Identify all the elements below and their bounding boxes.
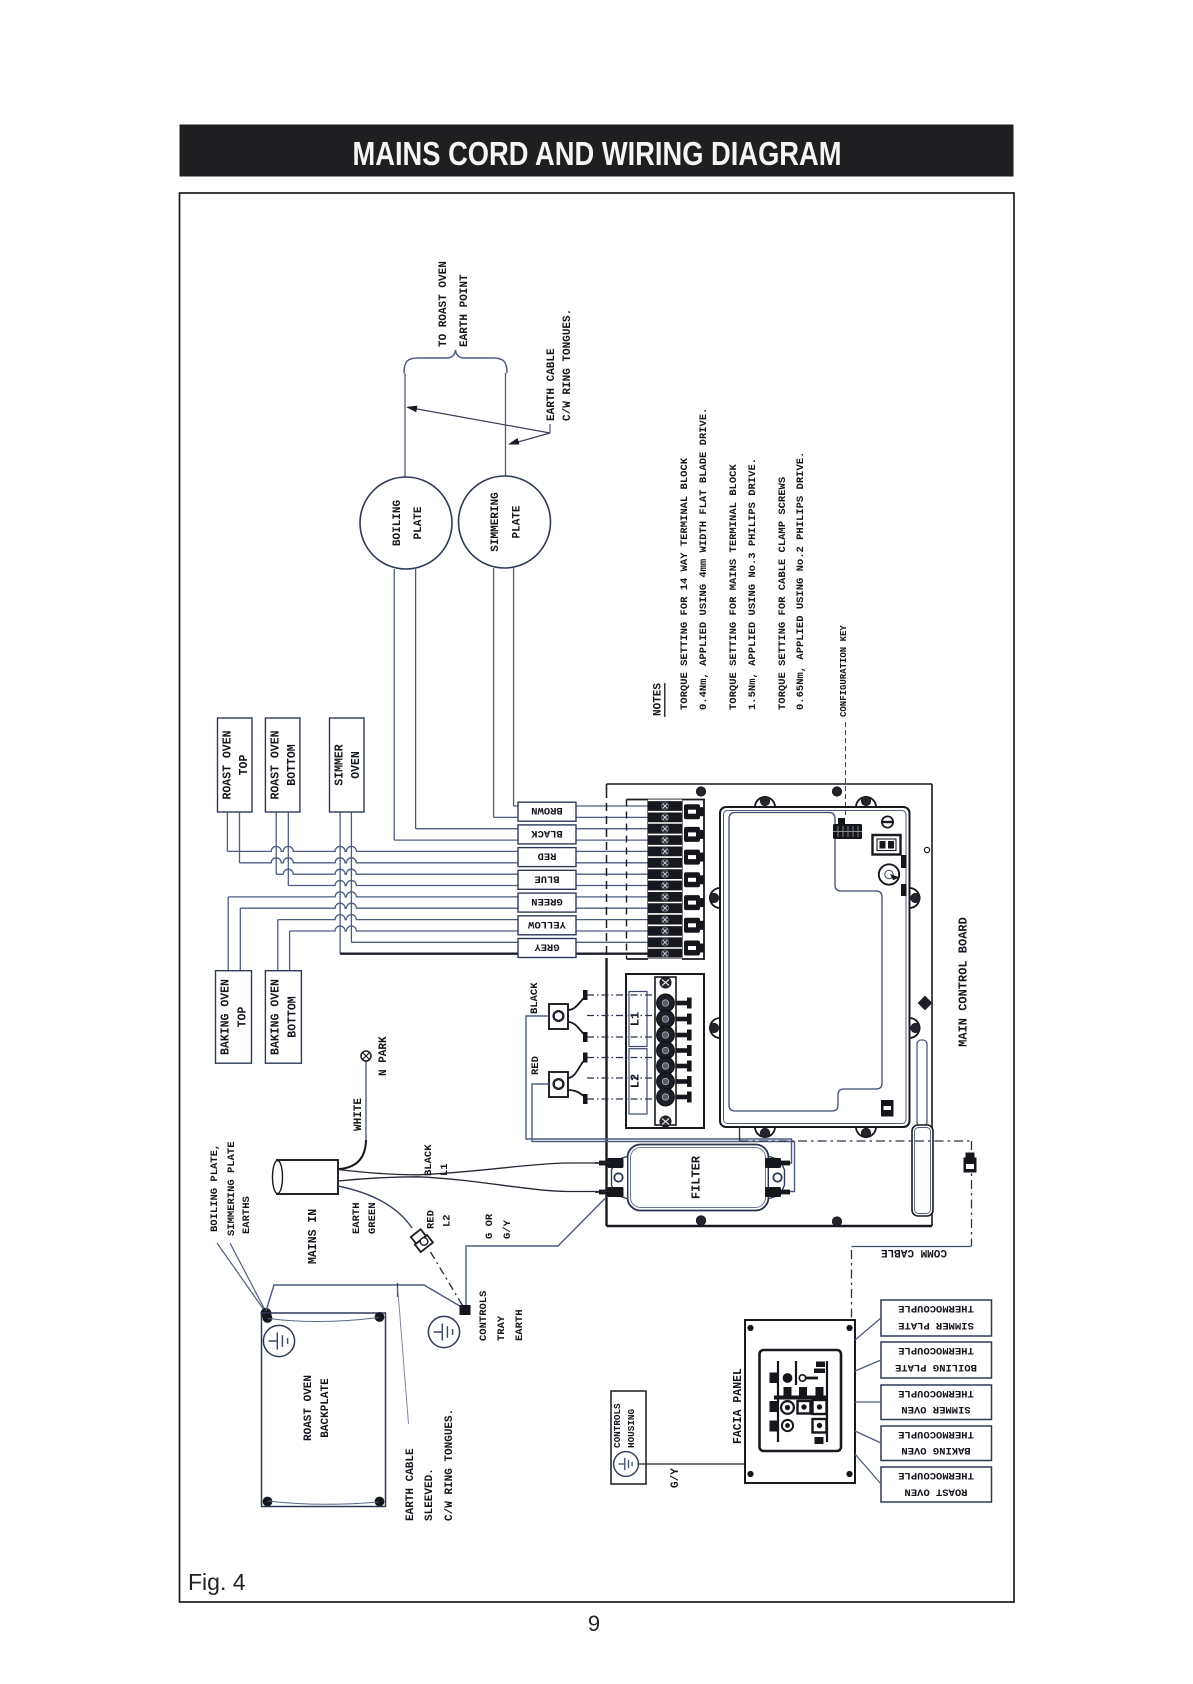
svg-text:BOILING: BOILING xyxy=(392,500,404,547)
svg-text:BOTTOM: BOTTOM xyxy=(286,744,299,786)
svg-text:FACIA PANEL: FACIA PANEL xyxy=(732,1368,745,1444)
svg-text:MAINS CORD AND WIRING DIAGRAM: MAINS CORD AND WIRING DIAGRAM xyxy=(353,135,842,172)
svg-text:G/Y: G/Y xyxy=(670,1468,682,1488)
svg-text:PLATE: PLATE xyxy=(413,506,425,539)
svg-text:SIMMER PLATE: SIMMER PLATE xyxy=(898,1319,974,1331)
svg-text:THERMOCOUPLE: THERMOCOUPLE xyxy=(898,1469,974,1481)
svg-text:TORQUE SETTING FOR 14 WAY TERM: TORQUE SETTING FOR 14 WAY TERMINAL BLOCK xyxy=(679,457,691,710)
svg-text:TORQUE SETTING FOR CABLE CLAMP: TORQUE SETTING FOR CABLE CLAMP SCREWS xyxy=(777,477,789,710)
svg-text:N PARK: N PARK xyxy=(378,1036,390,1076)
svg-text:MAINS IN: MAINS IN xyxy=(307,1209,320,1264)
svg-text:CONTROLS: CONTROLS xyxy=(478,1291,490,1341)
svg-text:EARTHS: EARTHS xyxy=(241,1196,253,1234)
svg-text:RED: RED xyxy=(530,1056,542,1075)
svg-text:BOILING PLATE,: BOILING PLATE, xyxy=(209,1144,221,1232)
svg-text:G OR: G OR xyxy=(484,1213,496,1239)
svg-text:TOP: TOP xyxy=(238,755,251,776)
svg-text:BLACK: BLACK xyxy=(529,982,541,1014)
svg-text:ROAST OVEN: ROAST OVEN xyxy=(303,1375,315,1441)
svg-text:THERMOCOUPLE: THERMOCOUPLE xyxy=(898,1344,974,1356)
svg-text:RED: RED xyxy=(425,1210,437,1229)
svg-text:RED: RED xyxy=(538,850,557,862)
svg-text:SIMMER OVEN: SIMMER OVEN xyxy=(901,1403,970,1415)
svg-text:EARTH CABLE: EARTH CABLE xyxy=(546,348,558,421)
svg-text:SIMMERING PLATE: SIMMERING PLATE xyxy=(226,1141,238,1236)
svg-text:WHITE: WHITE xyxy=(353,1098,365,1131)
svg-text:BLUE: BLUE xyxy=(534,872,559,884)
svg-text:BACKPLATE: BACKPLATE xyxy=(320,1378,332,1438)
svg-text:9: 9 xyxy=(588,1611,600,1636)
svg-text:0.4Nm, APPLIED USING 4mm WIDTH: 0.4Nm, APPLIED USING 4mm WIDTH FLAT BLAD… xyxy=(698,408,710,710)
svg-text:OVEN: OVEN xyxy=(350,751,363,779)
svg-text:EARTH POINT: EARTH POINT xyxy=(459,274,471,347)
svg-text:1.5Nm, APPLIED USING No.3 PHIL: 1.5Nm, APPLIED USING No.3 PHILIPS DRIVE. xyxy=(747,458,759,710)
svg-text:COMM CABLE: COMM CABLE xyxy=(881,1246,947,1258)
svg-text:CONFIGURATION KEY: CONFIGURATION KEY xyxy=(839,625,849,717)
svg-text:ROAST OVEN: ROAST OVEN xyxy=(270,730,283,799)
svg-text:G/Y: G/Y xyxy=(502,1219,514,1239)
svg-text:GREEN: GREEN xyxy=(367,1202,379,1234)
svg-text:TRAY: TRAY xyxy=(496,1315,508,1341)
svg-text:BAKING OVEN: BAKING OVEN xyxy=(270,979,283,1055)
svg-text:BLACK: BLACK xyxy=(531,827,563,839)
svg-text:ROAST OVEN: ROAST OVEN xyxy=(222,730,235,799)
svg-text:PLATE: PLATE xyxy=(512,505,524,538)
svg-text:TO ROAST OVEN: TO ROAST OVEN xyxy=(438,261,450,347)
svg-text:L2: L2 xyxy=(628,1074,642,1088)
svg-text:EARTH: EARTH xyxy=(351,1202,363,1234)
svg-text:0.65Nm, APPLIED USING No.2 PHI: 0.65Nm, APPLIED USING No.2 PHILIPS DRIVE… xyxy=(795,452,807,710)
svg-text:L2: L2 xyxy=(441,1214,453,1227)
svg-text:L1: L1 xyxy=(439,1163,451,1176)
svg-text:GREY: GREY xyxy=(534,941,560,953)
svg-text:BOTTOM: BOTTOM xyxy=(287,996,300,1038)
svg-text:TOP: TOP xyxy=(237,1007,250,1028)
svg-text:SIMMER: SIMMER xyxy=(334,744,347,786)
svg-text:THERMOCOUPLE: THERMOCOUPLE xyxy=(898,1302,974,1314)
svg-text:Fig. 4: Fig. 4 xyxy=(188,1569,246,1595)
svg-text:BLACK: BLACK xyxy=(423,1144,435,1176)
svg-text:NOTES: NOTES xyxy=(653,683,665,716)
svg-text:TORQUE SETTING FOR MAINS TERMI: TORQUE SETTING FOR MAINS TERMINAL BLOCK xyxy=(728,464,740,710)
svg-text:EARTH: EARTH xyxy=(514,1309,526,1341)
svg-text:L1: L1 xyxy=(628,1012,642,1026)
svg-text:MAIN CONTROL BOARD: MAIN CONTROL BOARD xyxy=(956,917,970,1047)
svg-text:THERMOCOUPLE: THERMOCOUPLE xyxy=(898,1387,974,1399)
svg-text:BAKING OVEN: BAKING OVEN xyxy=(901,1444,970,1456)
svg-text:ROAST OVEN: ROAST OVEN xyxy=(904,1485,967,1497)
svg-text:HOUSING: HOUSING xyxy=(626,1409,637,1448)
svg-text:CONTROLS: CONTROLS xyxy=(612,1403,623,1448)
svg-text:EARTH CABLE: EARTH CABLE xyxy=(405,1448,417,1521)
svg-text:FILTER: FILTER xyxy=(689,1155,703,1199)
svg-text:THERMOCOUPLE: THERMOCOUPLE xyxy=(898,1428,974,1440)
svg-text:C/W RING TONGUES.: C/W RING TONGUES. xyxy=(562,309,574,421)
svg-text:BOILING PLATE: BOILING PLATE xyxy=(895,1361,977,1373)
svg-text:GREEN: GREEN xyxy=(531,895,563,907)
svg-text:C/W RING TONGUES.: C/W RING TONGUES. xyxy=(444,1409,456,1521)
svg-text:SLEEVED.: SLEEVED. xyxy=(424,1468,436,1521)
svg-text:BROWN: BROWN xyxy=(531,804,563,816)
svg-text:BAKING OVEN: BAKING OVEN xyxy=(220,979,233,1055)
svg-text:SIMMERING: SIMMERING xyxy=(490,492,502,552)
svg-text:YELLOW: YELLOW xyxy=(527,918,566,930)
